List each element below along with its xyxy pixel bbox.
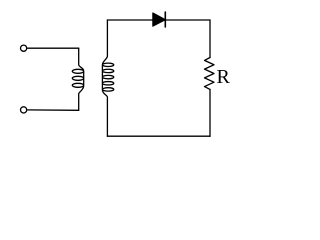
wire secondary to diode: [107, 19, 153, 21]
resistor R zigzag: [205, 58, 215, 90]
wire diode to top-right corner: [165, 19, 210, 21]
terminal bottom-left: [21, 107, 27, 113]
wire bottom: [107, 135, 210, 137]
diode D1 triangle: [153, 13, 165, 26]
wire resistor to bottom-right corner: [209, 89, 211, 136]
diode D1 cathode bar: [164, 12, 166, 27]
inductor secondary winding with leads: [102, 20, 113, 136]
label R: [217, 67, 230, 87]
terminal top-left: [21, 45, 27, 51]
inductor primary winding with leads: [72, 48, 83, 110]
wire bottom terminal to primary: [27, 109, 79, 111]
wire top terminal to primary: [27, 47, 79, 49]
wire right corner down to resistor: [209, 20, 211, 58]
